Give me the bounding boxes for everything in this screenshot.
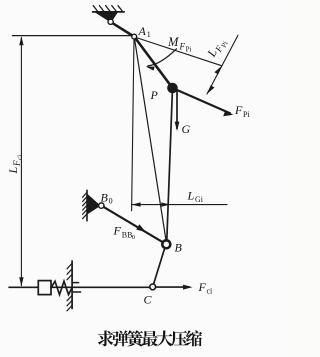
svg-text:Pi: Pi [186, 46, 192, 54]
svg-text:F: F [234, 103, 243, 117]
svg-text:0: 0 [132, 234, 135, 241]
label L_FPi (rotated) [204, 35, 230, 62]
svg-text:P: P [150, 88, 159, 102]
dimension L_Fci vertical line [20, 38, 22, 286]
svg-text:L: L [6, 167, 20, 175]
force F_Pi [173, 88, 231, 113]
ceiling pivot circle [108, 19, 113, 24]
svg-text:L: L [187, 189, 195, 203]
svg-text:A: A [138, 24, 147, 38]
slider rod (line of action of F_ci) [9, 286, 150, 288]
svg-text:F: F [179, 42, 186, 52]
svg-text:Gi: Gi [195, 195, 204, 204]
wire A1 vertical extension to L_Gi dimension [132, 37, 134, 211]
line of action through A1 parallel to F_Pi [135, 37, 222, 66]
link from ceiling pivot to A1 [111, 22, 134, 36]
node B [162, 240, 170, 248]
top reference line through A1 [12, 35, 131, 37]
svg-text:B: B [175, 241, 183, 255]
svg-text:F: F [12, 160, 22, 167]
caption text 求弹簧最大压缩 [98, 330, 202, 346]
svg-text:F: F [113, 224, 122, 238]
force G (gravity at P) [176, 92, 178, 129]
svg-text:Pi: Pi [243, 110, 250, 119]
link B to C [153, 244, 166, 287]
svg-text:C: C [144, 293, 153, 307]
svg-text:ci: ci [16, 155, 24, 160]
svg-text:F: F [198, 280, 207, 294]
svg-text:1: 1 [147, 30, 151, 39]
node P (mass point) [167, 83, 178, 94]
dimension line L_FPi [207, 35, 238, 94]
label L_FCi (rotated, left dimension) [6, 155, 24, 175]
svg-text:0: 0 [109, 197, 113, 206]
svg-text:ci: ci [207, 287, 214, 296]
link A1 to B (thin line) [134, 37, 166, 242]
ceiling support hatched line [93, 6, 125, 12]
pivot circle B0 [99, 203, 104, 208]
wall pivot triangle B0 [88, 195, 100, 214]
link P to B [167, 88, 173, 241]
spring slider box [38, 281, 51, 295]
force F_ci [153, 286, 190, 288]
spring zigzag [51, 281, 72, 294]
node C [150, 284, 156, 290]
svg-text:B: B [101, 191, 109, 205]
moment arc M_FPi with arrow [148, 49, 177, 66]
node A1 circle [132, 34, 137, 39]
link A1 to P (thick) [134, 37, 172, 88]
svg-text:M: M [167, 35, 179, 49]
spring wall hatched [67, 261, 81, 311]
wall support at B0 [83, 190, 87, 221]
dimension line L_Gi [132, 204, 227, 206]
ceiling pivot triangle [96, 13, 117, 22]
spring guide flanges [72, 282, 79, 284]
svg-text:G: G [182, 122, 191, 136]
link B0 to B with force arrow F_BB0 [101, 206, 166, 245]
